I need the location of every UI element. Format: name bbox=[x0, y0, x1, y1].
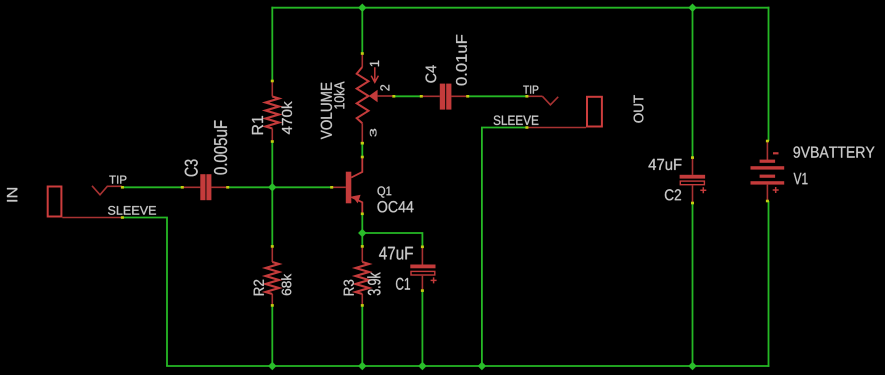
capacitor C1 bottom pin bbox=[421, 276, 423, 291]
wire C1 bottom to ground rail bbox=[421, 291, 423, 366]
transistor Q1 emitter lead bbox=[351, 197, 362, 214]
pin dot pot pin3 bbox=[361, 142, 364, 145]
label R3 bbox=[344, 280, 354, 295]
label pot pin number 2 bbox=[380, 85, 389, 91]
label VOLUME bbox=[321, 83, 332, 140]
transistor Q1 base bar bbox=[346, 172, 352, 204]
wire top rail VCC bbox=[271, 7, 769, 9]
wire node E to C1 top bbox=[361, 233, 422, 247]
pin dot J-OUT tip bbox=[525, 95, 528, 98]
connector J-OUT tip pin bbox=[527, 95, 543, 97]
label C2 bbox=[665, 189, 681, 200]
wire input sleeve to ground rail bbox=[122, 218, 167, 367]
pin dot R2 top bbox=[271, 245, 274, 248]
resistor R2 zigzag bbox=[266, 262, 279, 294]
junction node Q1 base bbox=[268, 183, 276, 191]
capacitor C4 plates bbox=[440, 84, 445, 110]
capacitor C2 bottom plate bbox=[680, 181, 704, 185]
capacitor C1 top plate bbox=[410, 265, 435, 269]
wire C2 branch bottom bbox=[692, 203, 694, 366]
pin dot battery top bbox=[766, 140, 769, 143]
battery V1 minus sign bbox=[773, 152, 779, 154]
junction node emitter bbox=[358, 229, 366, 237]
wire R3 bottom to ground rail bbox=[361, 305, 363, 366]
capacitor C2 top plate bbox=[680, 175, 706, 179]
capacitor C1 bottom plate bbox=[411, 271, 435, 275]
wire input tip to C3 bbox=[122, 186, 182, 188]
resistor R1 zigzag bbox=[266, 97, 279, 129]
wire pot branch top bbox=[361, 8, 363, 54]
pin dot J-IN tip bbox=[121, 186, 124, 189]
connector J-OUT jack body bbox=[587, 97, 602, 127]
pin dot pot pin1 bbox=[361, 52, 364, 55]
pin dot pot3-collector mid bbox=[361, 142, 364, 145]
pin dot C3 right bbox=[226, 186, 229, 189]
label TIP input bbox=[109, 176, 126, 184]
wire node base to R2 top bbox=[271, 187, 273, 246]
pin dot R2 bottom bbox=[271, 304, 274, 307]
pin dot R3 bottom bbox=[361, 304, 364, 307]
capacitor C3 plates bbox=[200, 174, 205, 200]
wire R1 bottom to node base bbox=[271, 142, 273, 188]
battery V1 bottom pin bbox=[766, 185, 768, 201]
label C1 bbox=[396, 278, 410, 290]
capacitor C2 plus sign bbox=[700, 187, 706, 193]
junction node gnd out sleeve bbox=[478, 362, 486, 370]
capacitor C2 bottom pin bbox=[692, 186, 694, 204]
resistor R1 bottom pin bbox=[271, 129, 273, 142]
connector J-IN tip contact bbox=[92, 186, 122, 195]
capacitor C3 left pin bbox=[182, 186, 200, 188]
pin dot C4 left bbox=[420, 95, 423, 98]
junction node gnd R2 bbox=[268, 362, 276, 370]
pin dot C4 right bbox=[466, 95, 469, 98]
wire C4 to output tip bbox=[468, 95, 527, 97]
label 0.01uF bbox=[456, 35, 467, 86]
wire output sleeve branch bbox=[482, 128, 527, 367]
label R1 bbox=[252, 116, 263, 134]
battery V1 plate long 1 bbox=[751, 166, 785, 169]
transistor Q1 base pin bbox=[332, 186, 346, 188]
junction node gnd R3 bbox=[358, 362, 366, 370]
label C4 bbox=[426, 65, 437, 82]
label 10kA bbox=[334, 82, 345, 109]
label OUT bbox=[634, 95, 644, 122]
potentiometer VOLUME zigzag bbox=[357, 67, 369, 123]
pin dot R1 bottom bbox=[271, 140, 274, 143]
wire Q1 emitter to node E bbox=[361, 214, 363, 233]
label TIP output bbox=[523, 86, 538, 94]
label OC44 bbox=[378, 201, 414, 212]
potentiometer VOLUME adjust arrow bbox=[371, 67, 378, 82]
pin dot J-OUT sleeve bbox=[525, 126, 528, 129]
wire battery branch top bbox=[768, 7, 770, 141]
wire R2 bottom to ground rail bbox=[271, 305, 273, 366]
capacitor C1 top pin bbox=[421, 247, 423, 265]
wire battery branch bottom bbox=[768, 201, 770, 367]
resistor R3 bottom pin bbox=[361, 294, 363, 305]
pin dot C2 top bbox=[691, 156, 694, 159]
capacitor C4 left pin bbox=[421, 95, 440, 97]
label 9VBATTERY bbox=[794, 146, 875, 157]
label pot pin number 3 bbox=[370, 129, 377, 137]
junction node gnd C2 bbox=[688, 362, 696, 370]
pin dot R3 top bbox=[361, 245, 364, 248]
wire node E to R3 top bbox=[361, 233, 363, 246]
battery V1 plus sign bbox=[773, 187, 779, 193]
connector J-OUT sleeve pin bbox=[527, 127, 586, 129]
label 0.005uF bbox=[214, 121, 227, 175]
label V1 bbox=[794, 173, 808, 184]
potentiometer VOLUME pin1 stub bbox=[361, 54, 363, 68]
pin dot C3 left bbox=[181, 186, 184, 189]
label 68k bbox=[281, 274, 291, 295]
junction node pot top bbox=[358, 3, 366, 11]
wire R1 branch top bbox=[271, 7, 273, 81]
resistor R1 top pin bbox=[271, 81, 273, 97]
battery V1 top pin bbox=[766, 141, 768, 160]
pin dot Q1 base bbox=[330, 186, 333, 189]
connector J-IN jack body bbox=[48, 187, 62, 217]
resistor R2 bottom pin bbox=[271, 294, 273, 305]
pin dot C1 bottom bbox=[421, 289, 424, 292]
pin dot R1 top bbox=[271, 80, 274, 83]
pin dot pot pin2 bbox=[392, 95, 395, 98]
pin dot C2 bottom bbox=[691, 202, 694, 205]
battery V1 plate short 1 bbox=[760, 160, 776, 163]
label SLEEVE output bbox=[494, 116, 539, 126]
wire pot pin3 to Q1 collector bbox=[361, 143, 363, 157]
pin dot C1 top bbox=[421, 246, 424, 249]
label 47uF C1 bbox=[379, 247, 413, 260]
capacitor C1 plus sign bbox=[431, 277, 437, 283]
capacitor C3 right pin bbox=[211, 186, 228, 188]
transistor Q1 emitter arrow bbox=[352, 195, 360, 204]
junction node gnd C1 bbox=[418, 362, 426, 370]
label 470k bbox=[282, 101, 293, 134]
transistor Q1 collector lead bbox=[351, 157, 362, 178]
resistor R3 top pin bbox=[361, 246, 363, 262]
pin dot Q1 emitter bbox=[361, 213, 364, 216]
potentiometer VOLUME pin3 stub bbox=[361, 123, 363, 143]
battery V1 plate short 2 bbox=[760, 175, 776, 178]
label IN bbox=[7, 188, 17, 202]
junction node C2 top bbox=[688, 3, 696, 11]
wire C3 to Q1 base bbox=[228, 186, 332, 188]
pin dot J-IN sleeve bbox=[121, 216, 124, 219]
pin dot Q1 collector bbox=[361, 156, 364, 159]
battery V1 plate long 2 bbox=[751, 181, 785, 184]
potentiometer VOLUME wiper arrow pin2 bbox=[369, 90, 378, 102]
pin dot battery bottom bbox=[766, 200, 769, 203]
label SLEEVE input bbox=[108, 206, 156, 215]
connector J-IN sleeve pin bbox=[62, 217, 121, 219]
label Q1 bbox=[378, 186, 392, 197]
capacitor C4 right pin bbox=[451, 95, 467, 97]
label 47uF C2 bbox=[649, 159, 682, 170]
label R2 bbox=[254, 280, 264, 295]
wire C2 branch top bbox=[692, 8, 694, 158]
wire pot wiper to C4 bbox=[394, 95, 421, 97]
label 3.9k bbox=[367, 272, 380, 295]
label pot pin number 1 bbox=[370, 61, 379, 67]
capacitor C2 top pin bbox=[692, 158, 694, 175]
wire ground bottom rail bbox=[166, 365, 769, 367]
resistor R3 zigzag bbox=[356, 262, 369, 294]
connector J-OUT tip contact bbox=[542, 96, 558, 105]
resistor R2 top pin bbox=[271, 246, 273, 262]
label C3 bbox=[185, 160, 198, 177]
